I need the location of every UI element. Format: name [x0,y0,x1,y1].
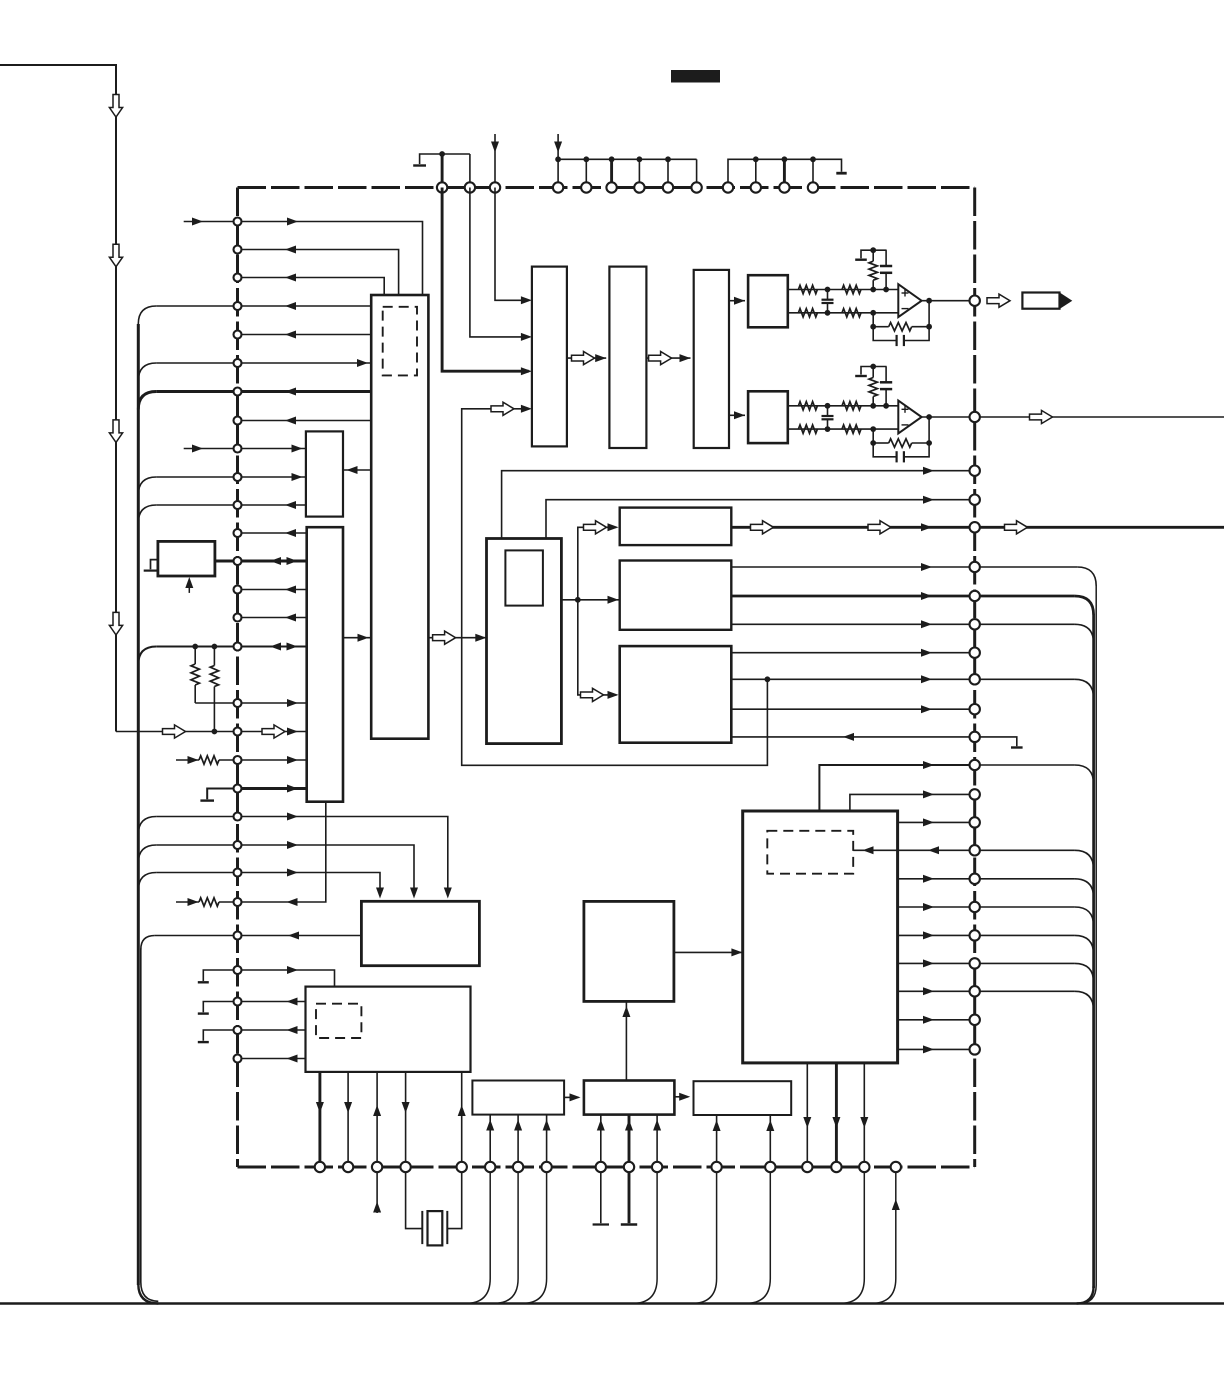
wire bundle curve to pin L6 [138,363,156,381]
curve pin R10 to right bundle [1075,679,1094,698]
crystal X1 left lead [406,1167,423,1229]
input resistor Ra [798,402,817,410]
crystal X1 plates [421,1211,423,1244]
wire bottom pin B11 riser into U14 [656,1115,658,1167]
wire U8 out 2 to pin R10 [731,678,974,680]
top edge pins [437,182,447,192]
block U11 control logic [306,987,471,1072]
wire pin L13 bidirectional thick [215,560,307,563]
bias resistor Re vertical [872,250,874,261]
ground stub at pin L26 [203,970,237,981]
block CH1 output buffer [748,275,788,327]
wire branch to middle box [578,599,619,601]
feedback capacitor Cf [873,327,896,341]
wire pin L2 to serial block top [238,250,399,296]
block U15 IO buffer 3 [694,1081,792,1115]
block U12 power block [584,901,674,1001]
wire bottom pin B11 to board bus [632,1167,657,1304]
wire supply rail stub [420,154,470,164]
bias capacitor C2 vertical [885,250,887,265]
feedback resistor Rf [872,429,874,443]
wire pin L9 to config block [238,448,306,450]
wire pin L10 line [156,476,306,478]
wire bottom pin B10 external stub thick [628,1167,631,1223]
junction dots rail B [555,156,561,162]
input resistor Rb [798,425,817,433]
wire pin R12 into U8 [731,736,974,738]
feedback capacitor Cf [873,443,896,457]
wire bottom pin B9 external stub [600,1167,602,1223]
wire pin L23 to mux input riser [156,873,380,897]
wire bundle curve to pin L23 [138,873,156,891]
ground bar at supply stub [413,164,426,166]
wire CH minus path [788,428,899,430]
wire decoder top riser 1 to pin R3 [502,471,975,539]
wire pin L12 line [238,532,307,534]
wire input arrow above pin T4 [557,134,559,183]
wire U1 output to decoder with open arrow [428,637,486,639]
wire pin L18 from bus with open arrows [116,731,307,733]
wire U12 to U9 [674,951,743,953]
wire riser pin T9 corner [696,159,698,187]
curve pin R20 to right bundle [1075,963,1094,982]
right bundle vertical thin [1095,586,1097,1285]
right bundle bottom corner onto board bus [1077,1286,1094,1304]
wire top pin T1 descender to DAC input 3 thick [442,188,529,372]
wire pin L21 to mux input riser [156,817,448,897]
filter capacitor C1 between paths [827,290,829,300]
series resistor Rd [842,309,861,317]
wire pin L6 line [156,362,371,364]
wire bottom pin B12 to board bus [692,1167,717,1304]
wire bottom pin B13 riser into U15 [769,1115,771,1167]
wire bundle curve to pin L16 [138,647,156,665]
wire CH minus path [788,312,899,314]
hollow arrow on left bus 1 [109,95,122,118]
wire pin L28 from control block [238,1029,306,1031]
wire pin R13 into big block top [819,765,974,811]
wire pin L29 from control block [238,1058,306,1060]
wire U9 riser to bottom pin B16 [863,1063,865,1167]
wire bottom board bus line [0,1302,1224,1305]
curve pin R17 to right bundle [1075,879,1094,898]
wire U9 bottom output to pin R24 [898,1048,975,1050]
wire bottom pin B12 riser into U15 [716,1115,718,1167]
wire pin L7 line thick [156,390,371,393]
wire riser pin T2 [469,154,471,188]
wire U8 out 1 to pin R9 [731,652,974,654]
wire U7 out 1 to pin R6 [731,566,974,568]
wire U9 riser to bottom pin B14 [806,1063,808,1167]
wire left feedback bundle vertical [137,324,140,1285]
wire top pin T3 descender to DAC input 1 [495,188,529,301]
ground stub at pin L20 [207,789,237,800]
wire bottom pin B3 riser into U11 [376,1072,378,1167]
IC boundary dashed left edge [236,188,239,1168]
wire bottom pin B16 to board bus [839,1167,864,1304]
input resistor R4 with arrow at pin L24 [176,901,199,903]
wire bottom pin B7 to board bus [493,1167,518,1304]
IC boundary dashed right edge [973,188,976,1168]
block U10 mux [361,901,479,965]
wire bottom pin B10 riser into U14 thick [628,1115,631,1167]
block U1 serial interface tall [371,295,428,739]
wire bundle curve to pin L22 [138,845,156,863]
hollow arrow on left bus 2 [109,244,122,267]
wire U13 to U14 arrow [564,1096,578,1098]
wire opamp output to pin [922,416,975,418]
wire pin L8 line [238,420,372,422]
curve pin R6 to right bundle [1077,567,1096,586]
bias network rail [861,367,887,375]
block U14 IO buffer 2 [584,1081,675,1115]
wire pin L4 line [156,305,371,307]
wire U6 output thick to pin R5 and edge [731,526,1224,529]
block U2 register small [306,431,343,516]
junction dots on pin L16 line [192,644,198,650]
dashed sub-block inside U1 [383,307,417,376]
wire DAC3 to CH1 buffer [729,300,745,302]
inner box of U5 [505,550,543,605]
wire bottom pin B17 from board bus with arrow [871,1167,896,1304]
curve pin R8 to right bundle [1075,624,1094,643]
wire pin L24 from sys block bottom [238,802,326,902]
wire CH plus path [788,405,899,407]
wire bottom pin B8 to board bus [522,1167,547,1304]
wire decoder top riser 2 to pin R4 [546,500,975,539]
bias resistor Re vertical [872,367,874,378]
input resistor R3 with arrow at pin L19 [176,759,199,761]
wire bottom pin B6 riser into U13 [489,1115,491,1167]
wire pin L26 to control block top [238,970,335,987]
wire DAC1 to DAC2 open arrow [567,357,606,359]
block U3 tall control [307,527,343,802]
bias capacitor C2 vertical [885,367,887,382]
curve pin R16 to right bundle [1075,850,1094,869]
wire U5 output branch node [561,599,577,601]
wire bottom pin B6 to board bus [465,1167,490,1304]
wire branch to sync box upper [578,527,617,600]
wire pin L19 line [238,759,307,761]
wire input arrow above pin T3 [494,134,496,183]
arrow into U4 bottom [188,584,190,593]
ground stub at pin L28 [203,1030,237,1041]
wire loop from dot down to DAC return path [462,409,768,766]
wire pin L9 input arrow [184,448,238,450]
wire pin L1 to serial block top [238,222,423,296]
wire pin L22 to mux input riser [156,845,414,896]
wire riser pin T8 [667,159,669,187]
hollow arrow on left bus 4 [109,612,122,635]
wire pin L14 line [238,589,307,591]
block DAC3 dac core [694,270,729,448]
crystal X1 right lead [447,1167,461,1229]
wire bottom pin B8 riser into U13 [546,1115,548,1167]
block DAC2 delta-sigma [609,267,646,448]
open arrow at line out pin R1 [987,294,1010,307]
pull resistor R1 vertical [194,647,196,665]
wire top pin T2 descender to DAC input 2 [470,188,529,337]
wire U11 riser to bottom pin B1 thick [318,1072,321,1167]
bottom edge pins [315,1162,325,1172]
curve pin R7 to right bundle thick [1075,596,1094,615]
right bundle vertical thick [1092,615,1095,1288]
series resistor Rd [842,425,861,433]
wire U8 out 3 to pin R11 [731,708,974,710]
wire bundle curve to pin L21 [138,817,156,835]
wire bundle curve to pin L4 [138,306,156,324]
block U6 sync thin box [620,508,732,545]
crystal X1 body [428,1211,443,1245]
junction dot on pin L18 line [212,729,218,735]
op-amp U amplifier [898,401,921,434]
wire bottom pin B9 riser into U14 [600,1115,602,1167]
wire U14 output riser to U12 [625,1001,627,1080]
wire riser pin T5 [585,159,587,187]
wire pin L1 input arrow [184,221,238,223]
wire branch to lower box with open arrow [578,600,617,695]
curve pin R19 to right bundle [1075,935,1094,954]
wire line out 2 to edge [975,416,1224,418]
wire power rail C [728,159,842,187]
wire left input bus from top-left [0,65,116,732]
filter capacitor C1 between paths [827,406,829,416]
feedback resistor Rf [872,313,874,327]
wire pin R16 into dashed sub-block [853,849,975,851]
dashed sub-block inside U9 [767,831,853,874]
wire pin R14 into big block top [850,794,975,811]
wire riser pin T6 thick [610,159,613,187]
wire U14 to U15 arrow [674,1096,688,1098]
ground bar rail C [836,172,846,175]
curve pin R18 to right bundle [1075,907,1094,926]
wire bundle curve to pin L11 [138,505,156,523]
block DAC1 interpolator [532,267,567,447]
left edge pins [234,218,242,226]
curve pin R13 to right bundle [1075,765,1094,784]
wire riser pin T1 to supply rail [441,154,444,188]
block U9 display driver [743,811,898,1063]
right edge pins [970,296,980,306]
input resistor Rb [798,309,817,317]
block U13 IO buffer 1 [472,1081,564,1115]
block CH2 output buffer [748,391,788,443]
wire CH plus path [788,289,899,291]
junction dot T1 [439,151,445,157]
wire pin L5 line [238,334,372,336]
wire bundle bottom corner onto board bus [138,1284,158,1304]
dashed sub-block inside U11 [316,1004,361,1038]
wire U11 riser to bottom pin B4 [405,1072,407,1167]
headphone jack symbol [1022,293,1059,309]
bias network rail [861,250,887,258]
wire U9 riser to bottom pin B15 thick [835,1063,838,1167]
wire U1 to U2 link [343,469,371,471]
block U7 middle processor [620,561,732,630]
wire second bundle corner onto board bus [141,1282,159,1301]
wire riser pin T13 [812,159,814,187]
block U4 timing flag box [158,541,215,576]
ground stub at pin L27 [203,1002,237,1013]
wire pin L16 bidirectional [156,646,306,648]
junction dots rail C [753,156,759,162]
wire bottom pin B5 riser into U11 [461,1072,463,1167]
wire U11 riser to bottom pin B2 [347,1072,349,1167]
wire power rail B [558,158,697,160]
wire opamp output to pin [922,300,975,302]
op-amp U amplifier [898,284,921,317]
flag stub on U4 left [151,560,158,570]
wire pin L27 from control block [238,1001,306,1003]
junction dot on U8 out 2 [765,676,771,682]
wire riser pin T12 thick [783,159,786,187]
wire pin L20 line thick [238,787,307,790]
IC boundary dashed top edge [238,186,975,189]
wire bottom pin B13 to board bus [745,1167,770,1304]
wires U9 outputs to pins R17-R23 [898,878,975,880]
black label box [671,70,720,83]
open arrow on line out 2 [1030,410,1053,423]
wire U7 out 3 to pin R8 [731,623,974,625]
block U5 audio decoder [487,539,562,744]
wire pin L15 line [238,617,307,619]
wire pin L17 line [195,702,307,704]
wire U3 to U1 link [343,637,371,639]
curve pin R21 to right bundle [1075,991,1094,1010]
ground stub right of pin R12 [975,737,1017,746]
wire riser pin T7 [638,159,640,187]
wire U7 out 2 thick to pin R7 [731,595,974,598]
block U8 lower processor [620,646,732,743]
wire pin L25 from mux with bundle curve down [141,936,155,950]
right bundle thin bottom corner [1079,1285,1097,1304]
pull resistor R2 vertical [213,647,215,666]
wire bundle curve to pin L7 thick [138,392,156,410]
input resistor Ra [798,285,817,293]
wire pin L11 line [156,504,306,506]
wire pin L3 to serial block top [238,278,385,296]
wire U9 to pin R15 [898,821,975,823]
wire riser pin T11 [755,159,757,187]
wire bottom pin B3 external stub [376,1167,378,1213]
wire DAC3 to CH2 buffer [729,414,745,416]
wire bundle curve to pin L10 [138,477,156,495]
wire DAC2 to DAC3 open arrow [646,357,690,359]
series resistor Rc [842,285,861,293]
wire bottom pin B7 riser into U13 [517,1115,519,1167]
IC boundary dashed bottom edge [238,1166,975,1169]
hollow arrow on left bus 3 [109,420,122,443]
series resistor Rc [842,402,861,410]
